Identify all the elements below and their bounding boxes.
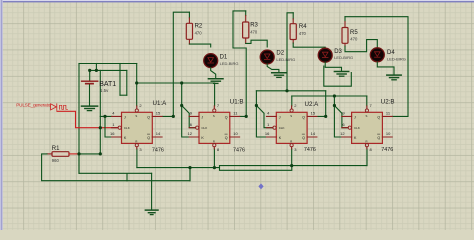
svg-text:LED-BIRG: LED-BIRG [276, 57, 295, 62]
svg-text:1.5v: 1.5v [100, 88, 109, 93]
svg-text:U1:B: U1:B [230, 98, 244, 105]
resistor R5 [342, 17, 348, 47]
svg-text:7476: 7476 [304, 147, 316, 153]
resistor R2 [186, 12, 192, 44]
svg-text:PULSE_generator: PULSE_generator [16, 103, 52, 108]
ground D3 [334, 72, 348, 77]
wire feed tree U1:B [182, 83, 196, 137]
resistor R3 [243, 11, 249, 44]
wire Q2 junction vertical to R3 hook [233, 11, 246, 117]
wire rail1-rail2 link [95, 64, 97, 71]
ground D4 [387, 75, 401, 80]
wire feed tree U2:A [256, 91, 272, 137]
wire D3 to ground [325, 62, 341, 71]
svg-text:12: 12 [340, 131, 345, 136]
svg-text:960: 960 [52, 158, 60, 163]
flip-flop U1:B (7476) [189, 106, 239, 149]
resistor R4 [290, 13, 296, 43]
svg-text:LED-BIRG: LED-BIRG [387, 56, 406, 61]
svg-text:U1:A: U1:A [153, 100, 168, 107]
resistor R1 [47, 152, 79, 157]
svg-text:14: 14 [311, 131, 316, 136]
wire left long vertical V1 [78, 64, 80, 174]
wire S-drop U2:B [366, 96, 368, 106]
wire R4 hook leg [287, 13, 293, 91]
svg-text:16: 16 [110, 131, 115, 136]
svg-text:7476: 7476 [152, 147, 164, 153]
wire S-rail right (y96) [292, 95, 367, 97]
wire Q4 to R5 hook [345, 17, 408, 117]
LED D3 [318, 48, 332, 62]
svg-text:D4: D4 [387, 50, 395, 56]
junction dots [77, 69, 336, 169]
flip-flop U2:B (7476) [342, 106, 392, 149]
window border left [0, 0, 3, 230]
svg-text:470: 470 [350, 37, 358, 42]
svg-text:14: 14 [156, 131, 161, 136]
svg-text:470: 470 [299, 31, 307, 36]
bottom reset rail [137, 166, 367, 168]
wire U-loop B [126, 70, 128, 95]
wire U1:A J/K feed [100, 116, 112, 137]
svg-text:U2:A: U2:A [305, 101, 320, 108]
wire R2 to D1 [189, 44, 210, 47]
svg-text:R2: R2 [195, 24, 203, 30]
wire D2 to ground [267, 64, 279, 72]
svg-text:470: 470 [250, 29, 258, 34]
ground main bottom [145, 173, 158, 214]
wire Q1 junction vertical to R2 hook [162, 12, 189, 116]
svg-text:R1: R1 [52, 146, 60, 152]
svg-text:LED-BIRG: LED-BIRG [220, 61, 239, 66]
wire D1 to ground [211, 68, 216, 79]
wire S-rail stage1 (y83) [136, 64, 138, 106]
svg-text:LED-BIRG: LED-BIRG [334, 55, 353, 60]
wire battery second rail [90, 69, 127, 71]
svg-text:D1: D1 [220, 55, 228, 61]
svg-text:15: 15 [311, 111, 316, 116]
svg-text:R5: R5 [350, 30, 358, 36]
wire R1 left leg to bottom rail [42, 154, 190, 181]
svg-text:470: 470 [195, 31, 203, 36]
svg-text:BAT1: BAT1 [99, 81, 116, 88]
wire battery positive top rail [79, 63, 137, 65]
pulse generator symbol [51, 104, 68, 111]
pin numbers U2:B [340, 103, 391, 152]
wire reset rail down-leg [189, 168, 191, 181]
wire S-drop U1:B [214, 83, 216, 106]
ground D2 [272, 73, 286, 78]
svg-text:12: 12 [188, 131, 193, 136]
ground battery [82, 106, 98, 111]
svg-text:16: 16 [265, 131, 270, 136]
LED D2 [260, 50, 274, 64]
LED D1 [204, 54, 218, 68]
wire S-drop U2:A [291, 96, 293, 106]
LED D4 [370, 48, 384, 62]
wire Q3 junction vertical to H1 [318, 91, 326, 117]
svg-text:D2: D2 [276, 51, 284, 57]
wire D4 to ground [377, 62, 394, 75]
wire R3 to D2 [246, 40, 268, 47]
pin numbers U1:B [188, 103, 239, 152]
wire D3 loop [324, 66, 352, 86]
pin numbers U1:A [110, 103, 161, 152]
wire vertical V2 to R1 [99, 70, 101, 153]
svg-text:7476: 7476 [233, 147, 245, 153]
svg-text:7476: 7476 [381, 147, 393, 153]
svg-text:R3: R3 [250, 22, 258, 28]
wire pulse generator to CLK (red net) [57, 111, 118, 127]
battery BAT1 [81, 70, 99, 105]
wire U-loop A [119, 64, 121, 96]
flip-flop U2:A (7476) [267, 106, 317, 149]
svg-text:10: 10 [233, 131, 238, 136]
wire R4 to D3 [293, 43, 325, 49]
wire H1 rail (y90.8) [256, 90, 325, 92]
wire R-pin legs [137, 149, 367, 168]
svg-text:15: 15 [156, 111, 161, 116]
svg-text:10: 10 [386, 131, 391, 136]
wire U-loop bottom link [120, 94, 127, 96]
svg-text:D3: D3 [334, 49, 342, 55]
node marker blue diamond [258, 183, 263, 189]
svg-text:U2:B: U2:B [381, 99, 395, 106]
wire feed tree U2:B [334, 96, 348, 137]
wire R1 right junction to mid rail [79, 154, 292, 181]
ground D1 [208, 79, 223, 84]
window border top [0, 0, 474, 1]
svg-text:R4: R4 [299, 24, 307, 30]
wire R5 to D4 [345, 40, 377, 52]
flip-flop U1:A (7476) [112, 106, 162, 149]
pin numbers U2:A [265, 103, 316, 152]
